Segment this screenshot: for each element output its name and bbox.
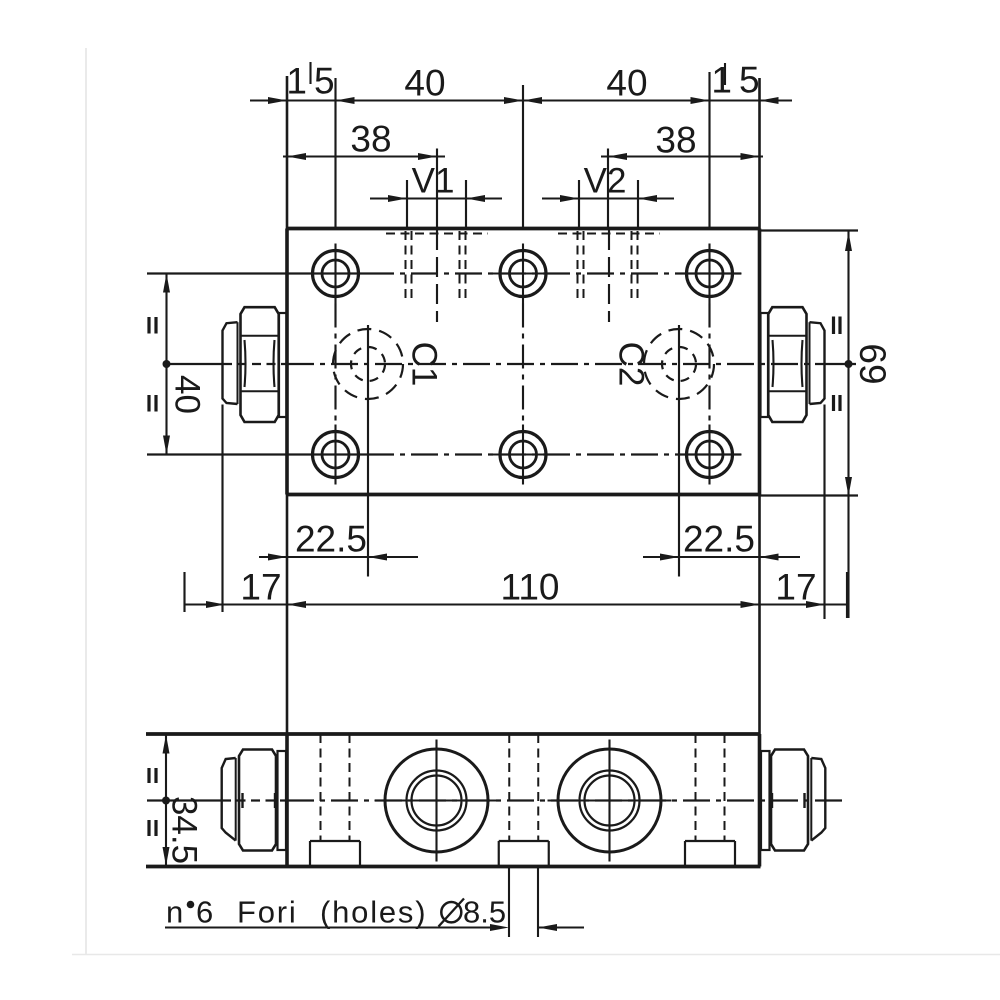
svg-text:38: 38 (350, 119, 391, 160)
svg-text:V1: V1 (412, 162, 455, 201)
svg-text:n: n (166, 895, 183, 930)
svg-text:110: 110 (501, 567, 560, 608)
svg-text:Fori: Fori (237, 895, 298, 930)
svg-text:6: 6 (196, 895, 213, 930)
svg-text:15: 15 (711, 60, 766, 101)
svg-text:17: 17 (240, 567, 281, 608)
svg-text:8.5: 8.5 (463, 895, 506, 930)
svg-text:(holes): (holes) (320, 895, 427, 930)
svg-text:40: 40 (606, 63, 647, 104)
svg-text:22.5: 22.5 (295, 519, 367, 560)
svg-text:15: 15 (286, 61, 341, 102)
svg-text:40: 40 (404, 63, 445, 104)
svg-text:40: 40 (168, 375, 207, 414)
svg-text:17: 17 (775, 567, 816, 608)
svg-text:38: 38 (655, 120, 696, 161)
svg-text:22.5: 22.5 (683, 519, 755, 560)
svg-text:V2: V2 (584, 162, 627, 201)
svg-text:69: 69 (852, 343, 893, 384)
svg-text:34.5: 34.5 (165, 796, 204, 864)
